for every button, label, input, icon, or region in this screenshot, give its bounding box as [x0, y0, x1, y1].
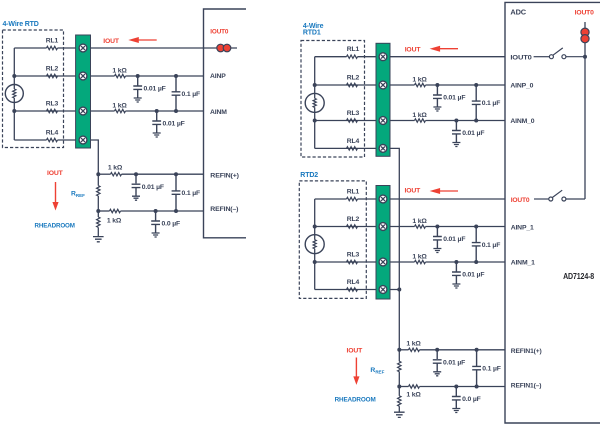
- wire AINP row: [126, 75, 204, 77]
- ground: [452, 284, 460, 288]
- junction: [454, 119, 458, 123]
- wire IOUT row to IOUT0: [358, 56, 506, 58]
- wire RTD1 bottom lead: [314, 112, 316, 148]
- wire RTD top lead: [13, 48, 15, 85]
- svg-text:4-Wire RTD: 4-Wire RTD: [3, 21, 39, 28]
- resistor RL1 (RTD1): [347, 55, 358, 58]
- svg-text:RREF: RREF: [71, 191, 85, 199]
- resistor RL2 (RTD2): [347, 225, 358, 228]
- ground: [452, 143, 460, 147]
- svg-text:RL3: RL3: [347, 252, 360, 259]
- terminal screw: [379, 145, 387, 153]
- resistor 1k AINP: [115, 74, 126, 77]
- svg-text:AD7124-8: AD7124-8: [563, 272, 595, 281]
- RTD dashed enclosure: [3, 30, 64, 148]
- svg-text:RL2: RL2: [347, 216, 360, 223]
- capacitor 0.01uF AINM: [152, 111, 161, 133]
- junction: [454, 260, 458, 264]
- svg-text:1 kΩ: 1 kΩ: [406, 341, 421, 348]
- RTD2 dashed enclosure: [299, 181, 366, 299]
- ground: [433, 372, 441, 376]
- svg-text:AINP_0: AINP_0: [510, 83, 533, 90]
- wire AINM row: [126, 110, 204, 112]
- wire AINM_1 left: [315, 261, 415, 263]
- wire AINP_0 left: [315, 84, 415, 86]
- resistor RL3 (RTD1): [347, 119, 358, 122]
- svg-text:RL3: RL3: [347, 110, 360, 117]
- capacitor 0.1uF REFIN1: [472, 350, 481, 387]
- svg-text:RL2: RL2: [347, 75, 360, 82]
- junction: [435, 348, 439, 352]
- svg-text:RL1: RL1: [347, 189, 360, 196]
- junction: [136, 74, 140, 78]
- arrow IOUT left: [128, 37, 156, 43]
- switch IOUT0 (channel 1): [534, 190, 585, 201]
- svg-text:IOUT: IOUT: [103, 38, 120, 45]
- arrow IOUT left: [430, 46, 458, 52]
- wire RL4 left: [14, 139, 46, 141]
- wire IOUT0 internal: [584, 22, 586, 199]
- resistor 1k AINM_1: [415, 260, 426, 263]
- svg-text:IOUT0: IOUT0: [575, 9, 595, 16]
- terminal screw: [79, 44, 87, 52]
- resistor 1k REFIN1+: [409, 348, 420, 351]
- svg-text:0.01 µF: 0.01 µF: [462, 130, 484, 137]
- svg-text:1 kΩ: 1 kΩ: [112, 67, 127, 74]
- jumper contacts IOUT0: [217, 44, 231, 52]
- svg-text:RHEADROOM: RHEADROOM: [335, 397, 377, 404]
- junction bus REFIN-: [96, 209, 100, 213]
- junction bus REFIN+: [96, 172, 100, 176]
- junction RTD2 bottom node: [313, 260, 317, 264]
- junction: [435, 225, 439, 229]
- wire IOUT row to ADC: [58, 47, 238, 49]
- wire AINP_1 row: [426, 226, 506, 228]
- capacitor 0.01uF AINP_0: [433, 85, 442, 107]
- svg-text:AINM: AINM: [210, 109, 227, 116]
- svg-text:0.01 µF: 0.01 µF: [462, 271, 484, 278]
- wire REFIN+ left: [98, 173, 110, 175]
- wire RL1 left: [14, 47, 46, 49]
- terminal screw: [379, 258, 387, 266]
- wire RL4 to bus: [315, 289, 400, 291]
- ground: [152, 233, 160, 237]
- wire bus: [398, 372, 400, 387]
- junction: [174, 209, 178, 213]
- terminal block RTD1: [376, 43, 390, 156]
- junction: [154, 209, 158, 213]
- svg-text:RL2: RL2: [46, 66, 59, 73]
- ground: [132, 196, 140, 200]
- svg-text:0.01 µF: 0.01 µF: [163, 120, 185, 127]
- terminal screw: [379, 195, 387, 203]
- ground: [433, 107, 441, 111]
- wire bus: [398, 350, 400, 362]
- jumper contacts IOUT0: [581, 28, 589, 43]
- resistor RL2: [47, 74, 58, 77]
- ground: [93, 237, 104, 242]
- junction RTD1 bottom node: [313, 119, 317, 123]
- junction: [454, 385, 458, 389]
- svg-text:REFIN(–): REFIN(–): [210, 206, 238, 213]
- resistor RL1 (RTD2): [347, 197, 358, 200]
- svg-text:1 kΩ: 1 kΩ: [108, 164, 123, 171]
- terminal screw: [379, 53, 387, 61]
- wire RL4 to reference bus: [315, 148, 400, 349]
- svg-text:IOUT: IOUT: [405, 188, 422, 195]
- wire bus: [97, 211, 99, 217]
- svg-text:0.0 µF: 0.0 µF: [462, 396, 481, 403]
- ground: [394, 412, 405, 417]
- capacitor 0.1uF AINP_1-AINM_1: [472, 227, 481, 263]
- wire REFIN1- left: [399, 386, 408, 388]
- ground: [134, 98, 142, 102]
- wire RL1 left: [315, 198, 347, 200]
- wire bus: [97, 196, 99, 211]
- svg-text:IOUT0: IOUT0: [511, 197, 530, 204]
- svg-text:0.01 µF: 0.01 µF: [443, 94, 465, 101]
- wire bus: [398, 387, 400, 396]
- ground: [153, 133, 161, 137]
- junction: [174, 74, 178, 78]
- wire IOUT row to IOUT0 (red): [358, 198, 506, 200]
- terminal screw: [79, 72, 87, 80]
- svg-text:1 kΩ: 1 kΩ: [112, 102, 127, 109]
- svg-text:RL1: RL1: [46, 38, 59, 45]
- arrow IOUT left: [430, 188, 458, 194]
- svg-text:IOUT: IOUT: [347, 347, 364, 354]
- resistor 1k AINP_0: [415, 83, 426, 86]
- wire RTD1 top lead: [314, 57, 316, 94]
- RTD2 element: [305, 235, 324, 254]
- junction RTD2 top node: [313, 225, 317, 229]
- svg-text:RREF: RREF: [370, 367, 384, 375]
- ADC box (left, partial): [204, 9, 247, 238]
- terminal screw: [79, 107, 87, 115]
- wire REFIN1+ left: [399, 349, 408, 351]
- terminal block RTD2: [376, 186, 390, 300]
- RTD element: [5, 85, 23, 103]
- svg-text:ADC: ADC: [510, 8, 526, 17]
- terminal screw: [379, 81, 387, 89]
- capacitor 0.0uF REFIN1-: [452, 387, 461, 409]
- svg-text:0.1 µF: 0.1 µF: [182, 190, 201, 197]
- wire RL1 left: [315, 56, 347, 58]
- junction bus REFIN1+: [397, 348, 401, 352]
- junction: [435, 83, 439, 87]
- junction: [474, 225, 478, 229]
- svg-text:RHEADROOM: RHEADROOM: [35, 222, 76, 229]
- resistor RREF: [398, 361, 401, 371]
- junction: [474, 260, 478, 264]
- svg-text:1 kΩ: 1 kΩ: [412, 112, 427, 119]
- capacitor 0.01uF AINP: [133, 76, 142, 98]
- resistor 1k AINM: [115, 109, 126, 112]
- junction: [174, 172, 178, 176]
- svg-text:REFIN(+): REFIN(+): [210, 172, 239, 179]
- svg-text:0.1 µF: 0.1 µF: [482, 366, 501, 373]
- wire AINM_0 row: [426, 120, 506, 122]
- resistor 1k REFIN1-: [409, 385, 420, 388]
- resistor RL3 (RTD2): [347, 260, 358, 263]
- resistor RL3: [47, 109, 58, 112]
- wire AINM_0 left: [315, 120, 415, 122]
- svg-text:0.01 µF: 0.01 µF: [443, 359, 465, 366]
- terminal block: [76, 35, 91, 148]
- junction: [134, 172, 138, 176]
- resistor 1k AINP_1: [415, 225, 426, 228]
- resistor RL1: [47, 46, 58, 49]
- svg-text:1 kΩ: 1 kΩ: [412, 218, 427, 225]
- svg-text:1 kΩ: 1 kΩ: [412, 76, 427, 83]
- svg-text:RL4: RL4: [347, 138, 360, 145]
- svg-text:0.1 µF: 0.1 µF: [482, 100, 501, 107]
- wire REFIN+ row: [122, 173, 204, 175]
- wire AINP_1 left: [315, 226, 415, 228]
- resistor RHEADROOM: [97, 217, 100, 227]
- svg-text:AINP_1: AINP_1: [511, 225, 534, 232]
- capacitor 0.0uF REFIN-: [151, 211, 160, 233]
- svg-text:RL4: RL4: [347, 279, 360, 286]
- junction: [474, 83, 478, 87]
- svg-text:REFIN1(–): REFIN1(–): [511, 382, 542, 389]
- RTD1 element: [305, 93, 324, 112]
- wire AINP_0 row: [426, 84, 506, 86]
- resistor 1k REFIN-: [110, 209, 121, 212]
- wire RL4 to reference bus: [58, 140, 99, 174]
- junction: [475, 348, 479, 352]
- svg-text:RTD2: RTD2: [300, 172, 318, 179]
- resistor RL4 (RTD1): [347, 147, 358, 150]
- junction: [474, 119, 478, 123]
- junction bus REFIN1-: [397, 385, 401, 389]
- wire RL3 left: [14, 110, 114, 112]
- resistor RL4: [47, 138, 58, 141]
- resistor 1k REFIN+: [111, 173, 122, 176]
- svg-text:AINP: AINP: [210, 73, 226, 80]
- resistor 1k AINM_0: [415, 119, 426, 122]
- switch IOUT0 (channel 0): [534, 48, 585, 59]
- capacitor 0.1uF REFIN: [172, 174, 181, 211]
- svg-text:1 kΩ: 1 kΩ: [412, 253, 427, 260]
- junction switch 1: [583, 55, 587, 59]
- wire RTD2 top lead: [314, 199, 316, 235]
- capacitor 0.01uF REFIN+: [132, 174, 141, 196]
- junction RTD1 top node: [313, 83, 317, 87]
- svg-text:AINM_0: AINM_0: [510, 118, 534, 125]
- capacitor 0.1uF AINP_0-AINM_0: [472, 85, 481, 121]
- arrow IOUT down: [52, 182, 58, 211]
- svg-text:AINM_1: AINM_1: [511, 260, 535, 267]
- junction RTD top node: [12, 74, 16, 78]
- capacitor 0.01uF REFIN1+: [433, 350, 442, 372]
- svg-text:0.1 µF: 0.1 µF: [182, 91, 201, 98]
- svg-text:IOUT0: IOUT0: [510, 55, 532, 62]
- svg-text:RL1: RL1: [347, 46, 360, 53]
- terminal screw: [379, 223, 387, 231]
- ground: [433, 249, 441, 253]
- wire REFIN1+ row: [420, 349, 506, 351]
- ADC AD7124-8 box: [505, 2, 600, 423]
- terminal screw: [379, 286, 387, 294]
- svg-text:1 kΩ: 1 kΩ: [406, 392, 421, 399]
- RTD1 dashed enclosure: [301, 41, 365, 158]
- ground: [452, 409, 460, 413]
- svg-text:IOUT0: IOUT0: [210, 29, 228, 36]
- junction: [155, 109, 159, 113]
- svg-text:1 kΩ: 1 kΩ: [107, 217, 122, 224]
- svg-text:IOUT: IOUT: [47, 170, 64, 177]
- svg-text:IOUT: IOUT: [405, 46, 422, 53]
- svg-text:0.01 µF: 0.01 µF: [443, 236, 465, 243]
- terminal screw: [79, 136, 87, 144]
- wire to ground: [97, 227, 99, 236]
- capacitor 0.01uF AINM_1: [452, 262, 461, 284]
- wire AINM_1 row: [426, 261, 506, 263]
- svg-text:RL4: RL4: [46, 130, 59, 137]
- svg-text:RL3: RL3: [46, 101, 59, 108]
- capacitor 0.01uF AINM_0: [452, 121, 461, 143]
- wire REFIN- left: [98, 210, 109, 212]
- svg-text:RTD1: RTD1: [303, 30, 321, 37]
- svg-text:0.01 µF: 0.01 µF: [142, 184, 164, 191]
- wire bus: [97, 174, 99, 185]
- svg-text:0.1 µF: 0.1 µF: [482, 242, 501, 249]
- junction: [475, 385, 479, 389]
- svg-text:0.01 µF: 0.01 µF: [144, 85, 166, 92]
- wire REFIN- row: [121, 210, 204, 212]
- wire REFIN1- row: [420, 386, 506, 388]
- resistor RL2 (RTD1): [347, 83, 358, 86]
- terminal screw: [379, 117, 387, 125]
- wire RTD bottom lead: [13, 103, 15, 141]
- resistor RHEADROOM: [398, 396, 401, 406]
- svg-text:0.0 µF: 0.0 µF: [162, 221, 181, 228]
- wire RL2 left: [14, 75, 114, 77]
- svg-text:REFIN1(+): REFIN1(+): [511, 348, 542, 355]
- arrow IOUT down: [353, 358, 359, 385]
- junction: [174, 109, 178, 113]
- resistor RREF: [97, 186, 100, 196]
- junction bus RTD2 return: [397, 288, 401, 292]
- capacitor 0.1uF AINP-AINM: [172, 76, 181, 111]
- wire to ground: [398, 406, 400, 412]
- junction RTD bottom node: [12, 109, 16, 113]
- resistor RL4 (RTD2): [347, 288, 358, 291]
- capacitor 0.01uF AINP_1: [433, 227, 442, 249]
- wire RTD2 bottom lead: [314, 254, 316, 290]
